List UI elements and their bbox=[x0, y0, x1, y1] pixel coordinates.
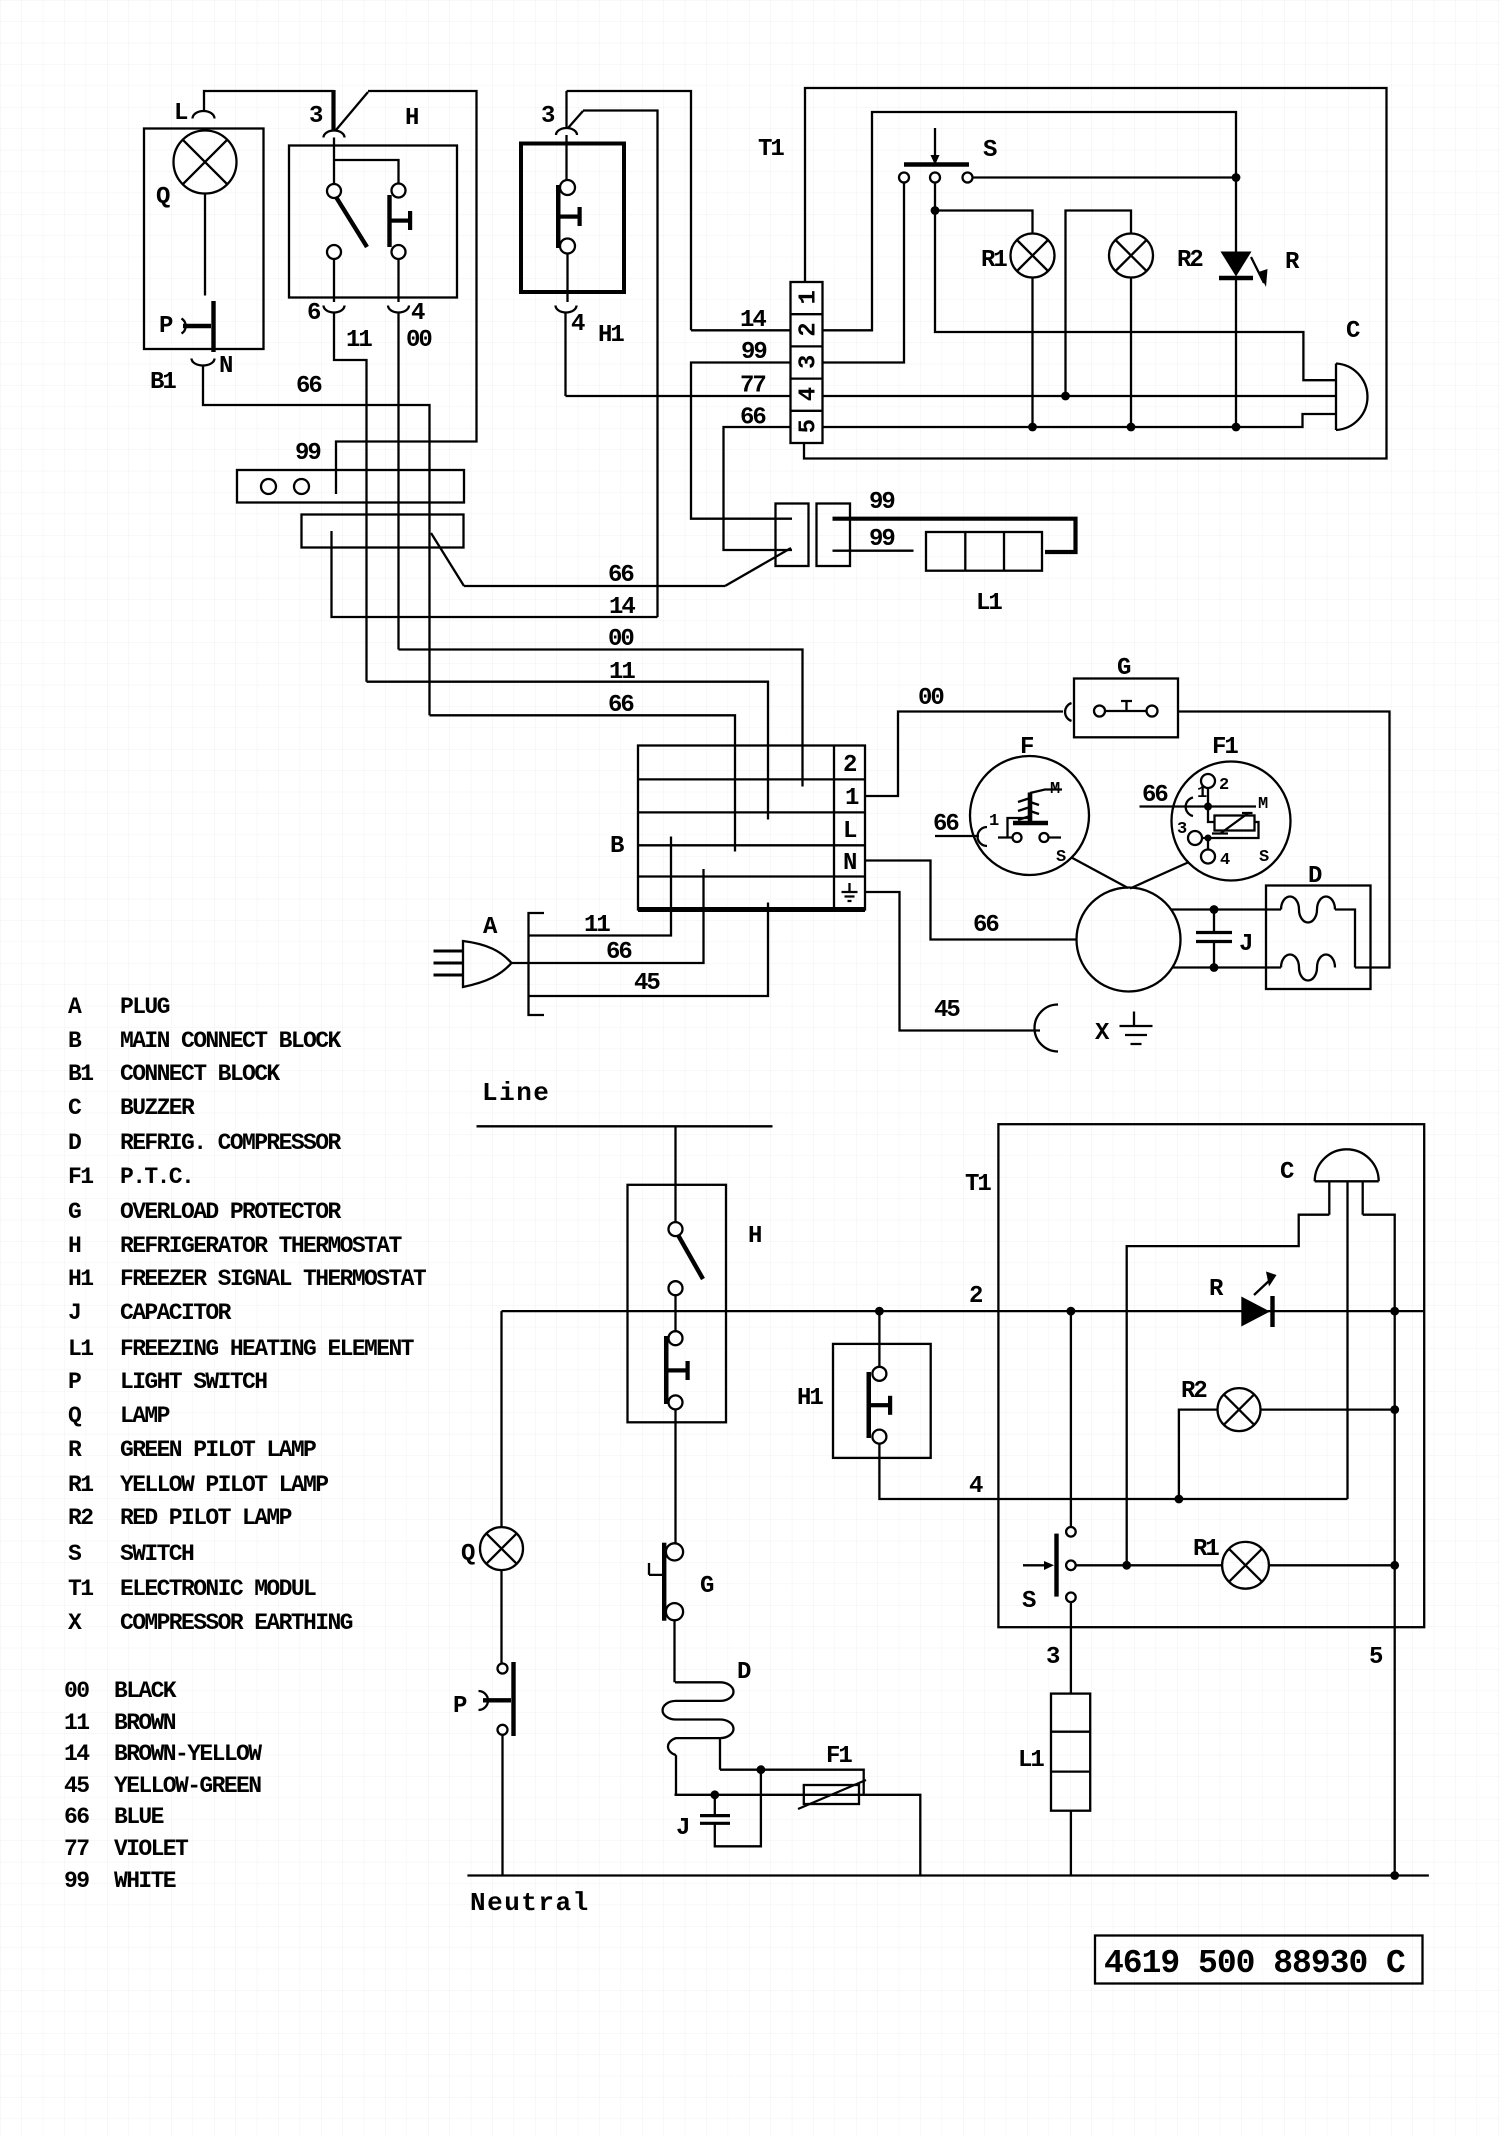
electronic modul T1 box bbox=[998, 1124, 1424, 1627]
svg-text:BLUE: BLUE bbox=[114, 1804, 164, 1830]
svg-text:00: 00 bbox=[406, 327, 432, 354]
wire 99 bbox=[336, 91, 477, 494]
svg-text:Q: Q bbox=[68, 1403, 82, 1429]
wire inner right to neutral bbox=[1394, 1311, 1396, 1875]
wire C left leg bbox=[1127, 1215, 1330, 1566]
yellow pilot lamp R1 bbox=[1011, 234, 1055, 278]
part number box bbox=[1095, 1936, 1423, 1984]
svg-text:M: M bbox=[1258, 795, 1268, 814]
svg-text:SWITCH: SWITCH bbox=[120, 1541, 194, 1567]
svg-text:C: C bbox=[68, 1095, 82, 1121]
node Neutral bbox=[467, 1874, 1429, 1876]
freezer signal thermostat H1 box bbox=[833, 1344, 931, 1458]
svg-text:66: 66 bbox=[973, 912, 999, 939]
svg-text:J: J bbox=[1239, 931, 1251, 958]
svg-text:OVERLOAD PROTECTOR: OVERLOAD PROTECTOR bbox=[120, 1199, 341, 1225]
svg-text:F: F bbox=[1020, 734, 1033, 761]
svg-text:66: 66 bbox=[1142, 782, 1168, 809]
svg-text:X: X bbox=[68, 1610, 82, 1636]
svg-text:MAIN CONNECT BLOCK: MAIN CONNECT BLOCK bbox=[120, 1028, 341, 1054]
svg-text:M: M bbox=[1050, 780, 1060, 799]
svg-text:R2: R2 bbox=[68, 1505, 93, 1531]
H internals bbox=[334, 138, 399, 185]
svg-text:3: 3 bbox=[1177, 820, 1187, 839]
wire S mid to R1 bbox=[935, 183, 1336, 381]
ground bbox=[1133, 1012, 1135, 1027]
svg-text:F1: F1 bbox=[68, 1164, 93, 1190]
svg-text:4: 4 bbox=[796, 387, 823, 401]
wire 11 from H-6 bbox=[334, 259, 367, 682]
svg-text:A: A bbox=[68, 994, 82, 1020]
wire 66 diagonal to connector bbox=[725, 548, 791, 586]
svg-text:S: S bbox=[68, 1541, 82, 1567]
svg-text:D: D bbox=[737, 1659, 751, 1686]
svg-text:ELECTRONIC MODUL: ELECTRONIC MODUL bbox=[120, 1576, 316, 1602]
yellow pilot lamp R1 bbox=[1222, 1542, 1269, 1589]
svg-text:R1: R1 bbox=[68, 1472, 93, 1498]
connector box pair bbox=[776, 504, 809, 567]
svg-text:4: 4 bbox=[411, 300, 425, 327]
wire 66 bundle row b bbox=[430, 715, 736, 851]
H1 internals bbox=[565, 135, 567, 180]
wire 00 bundle row bbox=[399, 650, 803, 787]
wire 99 row3 to connector bbox=[691, 363, 792, 519]
wire 00 to overload protector bbox=[865, 712, 1063, 797]
svg-text:Neutral: Neutral bbox=[470, 1888, 590, 1918]
svg-text:5: 5 bbox=[796, 419, 823, 433]
wire bbox=[336, 92, 368, 130]
svg-text:BUZZER: BUZZER bbox=[120, 1095, 195, 1121]
connector block 1-5 bbox=[791, 282, 823, 443]
switch S bbox=[1070, 1311, 1072, 1527]
wire 66 stub to F bbox=[935, 835, 979, 837]
svg-text:BLACK: BLACK bbox=[114, 1678, 177, 1704]
svg-text:N: N bbox=[219, 353, 232, 380]
buzzer C bbox=[1315, 1149, 1379, 1181]
wire 2 row bbox=[502, 1310, 1425, 1312]
svg-text:T1: T1 bbox=[758, 136, 784, 163]
freezer signal thermostat H1 box bbox=[521, 144, 624, 293]
wire from plug bbox=[512, 869, 704, 963]
svg-text:00: 00 bbox=[918, 685, 944, 712]
svg-text:45: 45 bbox=[64, 1773, 89, 1799]
capacitor J bbox=[1213, 910, 1215, 968]
svg-text:PLUG: PLUG bbox=[120, 994, 170, 1020]
connect block B1 bbox=[144, 129, 264, 350]
svg-text:00: 00 bbox=[64, 1678, 89, 1704]
svg-text:2: 2 bbox=[796, 324, 823, 337]
svg-text:FREEZING HEATING ELEMENT: FREEZING HEATING ELEMENT bbox=[120, 1336, 415, 1362]
wire bbox=[204, 91, 334, 111]
wire 99 lower bbox=[833, 550, 914, 552]
svg-text:H: H bbox=[748, 1223, 761, 1250]
capacitor J bbox=[715, 1770, 761, 1847]
svg-text:BROWN: BROWN bbox=[114, 1710, 176, 1736]
connect strip lower bbox=[302, 515, 464, 548]
freezing heating element L1 bbox=[1051, 1694, 1090, 1811]
node 4 of H1 bbox=[556, 306, 577, 313]
wire F1 to motor bbox=[1130, 862, 1189, 889]
svg-text:4: 4 bbox=[1220, 851, 1230, 870]
electronic modul T1 box bbox=[804, 88, 1387, 459]
ground pin symbol bbox=[848, 883, 850, 892]
wire 14 bbox=[568, 111, 658, 618]
wire P to neutral bbox=[501, 1735, 503, 1876]
svg-text:77: 77 bbox=[740, 373, 765, 400]
wire L1 to neutral bbox=[1070, 1811, 1072, 1876]
wire R2 feed bbox=[1066, 211, 1132, 397]
svg-text:5: 5 bbox=[1369, 1644, 1383, 1671]
svg-text:P: P bbox=[159, 313, 173, 340]
svg-text:45: 45 bbox=[634, 970, 660, 997]
freezing heating element L1 bbox=[926, 532, 1042, 571]
svg-text:R1: R1 bbox=[1193, 1536, 1219, 1563]
wire line to H bbox=[674, 1126, 676, 1222]
refrig compressor D bbox=[1266, 886, 1371, 990]
svg-text:99: 99 bbox=[741, 339, 766, 366]
wire G to compressor bbox=[1178, 712, 1390, 968]
green pilot lamp R (LED) bbox=[1221, 252, 1252, 277]
svg-text:45: 45 bbox=[934, 997, 960, 1024]
svg-text:D: D bbox=[1308, 863, 1322, 890]
node 4 of H bbox=[388, 306, 409, 313]
svg-text:14: 14 bbox=[64, 1741, 90, 1767]
svg-text:Line: Line bbox=[482, 1078, 550, 1108]
wire 66 from N bbox=[203, 366, 430, 716]
wire 45 to earthing bbox=[865, 892, 1040, 1031]
wire 11 bundle row bbox=[367, 682, 769, 820]
svg-text:R1: R1 bbox=[981, 247, 1007, 274]
svg-text:4: 4 bbox=[571, 311, 585, 338]
svg-text:YELLOW PILOT LAMP: YELLOW PILOT LAMP bbox=[120, 1472, 328, 1498]
svg-text:LAMP: LAMP bbox=[120, 1403, 170, 1429]
svg-text:RED PILOT LAMP: RED PILOT LAMP bbox=[120, 1505, 292, 1531]
svg-text:G: G bbox=[1117, 655, 1131, 682]
svg-text:VIOLET: VIOLET bbox=[114, 1836, 189, 1862]
T1 inner wire pin3 to S bbox=[823, 183, 905, 363]
cable bracket bbox=[529, 913, 545, 1015]
colour code list bbox=[64, 1678, 262, 1894]
svg-text:P: P bbox=[453, 1693, 467, 1720]
node N bbox=[192, 359, 215, 366]
wire bbox=[204, 194, 206, 296]
svg-text:R2: R2 bbox=[1177, 247, 1202, 274]
svg-text:YELLOW-GREEN: YELLOW-GREEN bbox=[114, 1773, 261, 1799]
wire 66 row5 bbox=[724, 427, 793, 550]
svg-text:N: N bbox=[843, 850, 856, 877]
wire upper to F1 bbox=[720, 1770, 864, 1795]
svg-text:COMPRESSOR EARTHING: COMPRESSOR EARTHING bbox=[120, 1610, 353, 1636]
wire S to LED column bbox=[973, 176, 1237, 178]
switch S bbox=[904, 162, 969, 166]
wire 99 thick to L1 bbox=[833, 519, 1076, 552]
svg-text:C: C bbox=[1346, 318, 1360, 345]
svg-text:T1: T1 bbox=[68, 1576, 93, 1602]
svg-text:H1: H1 bbox=[68, 1266, 93, 1292]
wire 66 to N row F stub bbox=[865, 861, 1077, 940]
svg-text:CONNECT BLOCK: CONNECT BLOCK bbox=[120, 1061, 280, 1087]
svg-text:66: 66 bbox=[933, 811, 959, 838]
svg-text:WHITE: WHITE bbox=[114, 1868, 176, 1894]
wire motor to D top bbox=[1171, 908, 1282, 910]
light switch P bbox=[211, 301, 215, 352]
svg-text:BROWN-YELLOW: BROWN-YELLOW bbox=[114, 1741, 262, 1767]
svg-text:T1: T1 bbox=[965, 1171, 991, 1198]
red pilot lamp R2 bbox=[1109, 234, 1153, 278]
svg-text:L1: L1 bbox=[68, 1336, 93, 1362]
svg-text:J: J bbox=[676, 1815, 688, 1842]
svg-text:G: G bbox=[700, 1573, 714, 1600]
svg-text:66: 66 bbox=[606, 939, 632, 966]
lamp Q bbox=[174, 131, 237, 194]
wire C right leg bbox=[1363, 1215, 1395, 1311]
svg-text:11: 11 bbox=[64, 1710, 89, 1736]
wire to lamp Q bbox=[500, 1311, 502, 1527]
svg-text:Q: Q bbox=[156, 184, 170, 211]
relay F bbox=[970, 756, 1089, 875]
svg-text:S: S bbox=[983, 137, 997, 164]
svg-text:B1: B1 bbox=[150, 369, 176, 396]
wire 77 row4 bbox=[566, 395, 791, 397]
wire row4 to buzzer bbox=[823, 395, 1337, 397]
refrigerator thermostat H box bbox=[628, 1185, 727, 1423]
wire H1 top bbox=[878, 1311, 880, 1367]
svg-text:L1: L1 bbox=[1018, 1747, 1044, 1774]
lamp Q bbox=[480, 1527, 523, 1570]
node 6 of H bbox=[324, 306, 345, 313]
overload protector G bbox=[1065, 703, 1071, 721]
svg-text:11: 11 bbox=[609, 659, 635, 686]
T1 inner wire pin2 bbox=[823, 112, 1237, 330]
svg-text:LIGHT SWITCH: LIGHT SWITCH bbox=[120, 1369, 267, 1395]
node 3 of H1 bbox=[556, 128, 577, 135]
svg-text:3: 3 bbox=[796, 355, 823, 369]
svg-text:D: D bbox=[68, 1130, 81, 1156]
svg-text:4: 4 bbox=[969, 1473, 983, 1500]
svg-text:66: 66 bbox=[608, 562, 634, 589]
wire 11 bbox=[529, 837, 672, 936]
svg-text:3: 3 bbox=[1046, 1644, 1060, 1671]
svg-text:66: 66 bbox=[608, 692, 634, 719]
svg-text:J: J bbox=[68, 1300, 80, 1326]
wire Q to P bbox=[500, 1570, 502, 1663]
svg-text:H: H bbox=[68, 1233, 81, 1259]
wire H to G bbox=[674, 1409, 676, 1543]
wire G to D bbox=[673, 1620, 675, 1682]
svg-text:11: 11 bbox=[584, 912, 610, 939]
wire to T1 pin2 bbox=[567, 91, 692, 330]
svg-text:R2: R2 bbox=[1181, 1378, 1206, 1405]
wire S to L1 bbox=[1070, 1602, 1072, 1694]
svg-text:2: 2 bbox=[969, 1283, 982, 1310]
svg-text:2: 2 bbox=[1219, 776, 1229, 795]
wire 45 bbox=[529, 903, 769, 997]
wire row5 to buzzer bbox=[823, 414, 1337, 427]
svg-text:3: 3 bbox=[541, 103, 555, 130]
svg-text:B1: B1 bbox=[68, 1061, 93, 1087]
wire 77 bbox=[566, 254, 568, 397]
svg-text:4619 500 88930 C: 4619 500 88930 C bbox=[1104, 1945, 1405, 1982]
legend list bbox=[68, 994, 427, 1636]
svg-text:99: 99 bbox=[869, 526, 894, 553]
compressor earthing X bbox=[1035, 1005, 1059, 1052]
svg-text:B: B bbox=[610, 833, 624, 860]
svg-text:1: 1 bbox=[796, 291, 823, 305]
svg-text:66: 66 bbox=[296, 373, 322, 400]
svg-text:FREEZER SIGNAL THERMOSTAT: FREEZER SIGNAL THERMOSTAT bbox=[120, 1266, 427, 1292]
svg-text:99: 99 bbox=[869, 489, 894, 516]
wire 14 row2 bbox=[691, 329, 791, 331]
svg-text:L: L bbox=[843, 818, 857, 845]
svg-text:F1: F1 bbox=[826, 1743, 852, 1770]
svg-text:99: 99 bbox=[64, 1868, 89, 1894]
svg-text:66: 66 bbox=[64, 1804, 89, 1830]
svg-text:Q: Q bbox=[461, 1541, 475, 1568]
svg-text:B: B bbox=[68, 1028, 82, 1054]
svg-text:L: L bbox=[174, 100, 188, 127]
wire 14 bundle row bbox=[332, 531, 658, 617]
svg-text:REFRIGERATOR THERMOSTAT: REFRIGERATOR THERMOSTAT bbox=[120, 1233, 402, 1259]
svg-text:11: 11 bbox=[346, 327, 372, 354]
svg-text:H1: H1 bbox=[797, 1385, 823, 1412]
svg-text:1: 1 bbox=[845, 785, 859, 812]
svg-text:1: 1 bbox=[1197, 784, 1207, 803]
svg-text:L1: L1 bbox=[976, 590, 1002, 617]
red pilot lamp R2 bbox=[1218, 1388, 1261, 1431]
refrigerator thermostat H box bbox=[289, 146, 457, 298]
svg-text:14: 14 bbox=[740, 307, 766, 334]
wire 00 from H-4 bbox=[397, 259, 399, 650]
wire 66 bundle row bbox=[431, 533, 725, 586]
svg-text:G: G bbox=[68, 1199, 81, 1225]
svg-text:00: 00 bbox=[608, 626, 634, 653]
P.T.C. F1 bbox=[1172, 762, 1291, 881]
svg-text:3: 3 bbox=[309, 103, 323, 130]
svg-text:77: 77 bbox=[64, 1836, 89, 1862]
svg-text:R: R bbox=[68, 1437, 82, 1463]
svg-text:14: 14 bbox=[609, 594, 635, 621]
buzzer C bbox=[1336, 364, 1367, 431]
compressor motor bbox=[1077, 888, 1181, 992]
svg-text:S: S bbox=[1259, 848, 1269, 867]
svg-text:99: 99 bbox=[295, 440, 320, 467]
connect strip upper bbox=[237, 470, 464, 503]
svg-text:2: 2 bbox=[843, 752, 856, 779]
svg-text:H: H bbox=[405, 105, 418, 132]
overload protector G bbox=[666, 1543, 683, 1560]
svg-text:6: 6 bbox=[307, 300, 321, 327]
svg-text:C: C bbox=[1280, 1159, 1294, 1186]
svg-text:H1: H1 bbox=[598, 322, 624, 349]
svg-text:CAPACITOR: CAPACITOR bbox=[120, 1300, 232, 1326]
wire lower through F1 bbox=[675, 1795, 921, 1876]
wire F to motor bbox=[1072, 858, 1129, 889]
light switch P bbox=[498, 1664, 508, 1674]
main connect block B bbox=[638, 746, 865, 910]
svg-text:66: 66 bbox=[740, 405, 766, 432]
wire motor to D bottom bbox=[1172, 966, 1281, 968]
svg-text:GREEN PILOT LAMP: GREEN PILOT LAMP bbox=[120, 1437, 316, 1463]
wire H1 to row4 bbox=[879, 1444, 1347, 1499]
svg-text:P.T.C.: P.T.C. bbox=[120, 1164, 193, 1190]
svg-text:S: S bbox=[1056, 848, 1066, 867]
svg-text:S: S bbox=[1022, 1588, 1036, 1615]
svg-text:P: P bbox=[68, 1369, 81, 1395]
node 3 of H bbox=[324, 131, 345, 138]
svg-text:REFRIG. COMPRESSOR: REFRIG. COMPRESSOR bbox=[120, 1130, 341, 1156]
svg-text:1: 1 bbox=[989, 812, 999, 831]
svg-text:F1: F1 bbox=[1212, 734, 1238, 761]
